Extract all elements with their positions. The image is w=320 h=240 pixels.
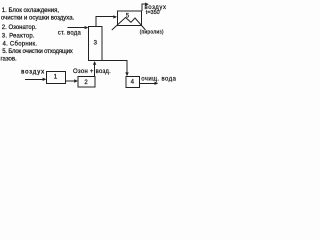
arrowhead: block1 to block2 bbox=[74, 79, 78, 82]
svg-text:Озон + возд.: Озон + возд. bbox=[73, 69, 111, 75]
svg-text:2. Озонатор.: 2. Озонатор. bbox=[2, 25, 37, 31]
wire: block 1 to block 2 bbox=[66, 80, 75, 82]
arrowhead: ozone up into block 3 bbox=[93, 61, 96, 65]
svg-text:очистки и осушки воздуха.: очистки и осушки воздуха. bbox=[1, 16, 75, 22]
svg-text:воздух: воздух bbox=[21, 70, 45, 76]
arrowhead: block 5 outlet bbox=[145, 3, 149, 6]
wire: ozone riser block2 to block3 bbox=[94, 62, 96, 76]
wire: clean water outlet from block 4 bbox=[140, 82, 156, 84]
wire: block 3 bottom to block 4 bbox=[102, 60, 127, 72]
svg-text:газов.: газов. bbox=[1, 57, 18, 63]
svg-text:1: 1 bbox=[54, 73, 58, 80]
svg-text:3. Реактор.: 3. Реактор. bbox=[2, 33, 35, 39]
wire: waste water into block 3 bbox=[68, 27, 85, 29]
svg-text:4. Сборник.: 4. Сборник. bbox=[3, 42, 38, 48]
svg-text:ст. вода: ст. вода bbox=[58, 31, 82, 37]
arrowhead: clean water outlet bbox=[155, 82, 159, 85]
svg-text:5. Блок очистки отходящих: 5. Блок очистки отходящих bbox=[2, 49, 73, 55]
block 2 (ozonator) box bbox=[78, 77, 95, 87]
block 4 (collector) box bbox=[126, 77, 140, 88]
arrowhead: waste water into block 3 bbox=[85, 26, 89, 29]
wire: block 3 top to block 5 bbox=[96, 17, 114, 27]
zigzag symbol inside block 5 bbox=[112, 18, 146, 31]
svg-text:t=350: t=350 bbox=[146, 10, 160, 16]
svg-text:(пиролиз): (пиролиз) bbox=[140, 29, 164, 35]
wire: air inlet to block 1 bbox=[25, 78, 44, 80]
block 5 (off-gas cleaning) box bbox=[117, 11, 141, 26]
arrowhead: down into block 4 bbox=[125, 72, 128, 76]
arrowhead: into block 5 bbox=[113, 15, 117, 18]
wire: block 5 outlet up-right bbox=[142, 4, 146, 11]
svg-text:1. Блок охлаждения,: 1. Блок охлаждения, bbox=[2, 8, 60, 14]
arrowhead: air into block 1 bbox=[43, 78, 47, 81]
svg-text:очищ. вода: очищ. вода bbox=[141, 76, 176, 82]
block 3 (reactor) box bbox=[89, 27, 102, 61]
block 1 (air unit) box bbox=[47, 71, 66, 83]
